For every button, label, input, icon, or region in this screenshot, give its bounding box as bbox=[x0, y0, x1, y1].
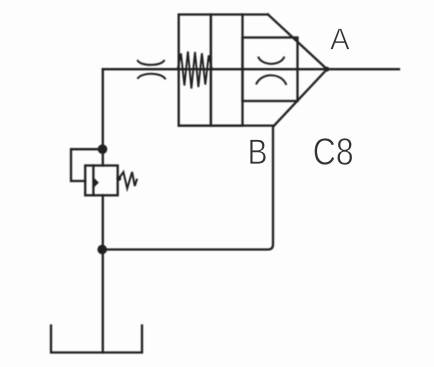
metering throttle upper arc bbox=[259, 58, 285, 64]
valve pentagon top edge bbox=[243, 13, 269, 15]
flow control valve C8 middle chamber bbox=[211, 15, 243, 126]
tank bbox=[51, 326, 142, 353]
relief valve spring attachment node bbox=[116, 176, 121, 181]
valve pentagon bottom edge bbox=[179, 124, 274, 126]
wire left vertical (lower part to tank) bbox=[102, 195, 104, 352]
node junction at bottom wire bbox=[97, 245, 107, 255]
relief valve internal arrow bbox=[94, 178, 99, 188]
throttle (inlet restriction) lower arc bbox=[138, 74, 165, 79]
wire main horizontal axis bbox=[103, 68, 399, 70]
relief valve internal divider bbox=[92, 166, 94, 196]
svg-text:C8: C8 bbox=[313, 131, 354, 173]
wire left vertical (pump line, upper part) bbox=[102, 69, 104, 165]
wire pilot loop of relief valve bbox=[71, 149, 103, 181]
node junction at relief pilot branch bbox=[98, 144, 108, 154]
spring inside left chamber bbox=[178, 52, 212, 89]
valve pentagon bottom diagonal bbox=[275, 69, 327, 125]
throttle (inlet restriction) upper arc bbox=[138, 61, 164, 65]
svg-text:B: B bbox=[248, 133, 268, 172]
relief valve spring bbox=[119, 172, 137, 188]
flow control valve C8 left chamber (spring box) bbox=[179, 15, 211, 126]
valve pentagon top diagonal bbox=[268, 15, 327, 70]
metering throttle lower arc bbox=[257, 75, 287, 84]
valve inner metering box bbox=[243, 38, 298, 102]
relief valve V1 body bbox=[85, 166, 118, 196]
svg-text:A: A bbox=[330, 23, 350, 56]
wire from valve port B down and left bbox=[103, 126, 273, 250]
node apex at port A bbox=[325, 67, 330, 72]
